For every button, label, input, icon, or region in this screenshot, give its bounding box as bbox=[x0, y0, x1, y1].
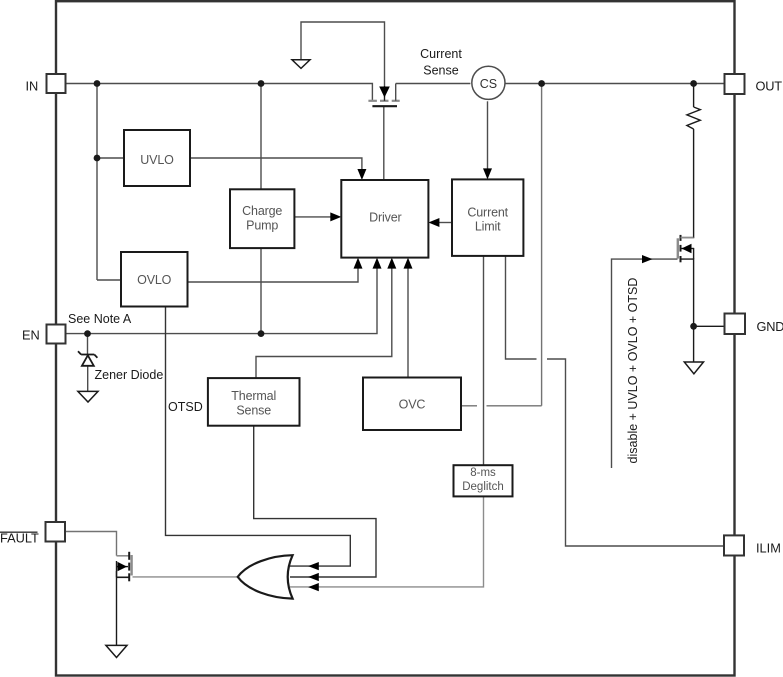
svg-text:Charge: Charge bbox=[242, 204, 282, 218]
wire Thermal Sense to Driver bbox=[256, 268, 392, 378]
wire Charge Pump to Driver bbox=[295, 216, 333, 218]
wire OUT net bbox=[396, 83, 471, 85]
arrow Charge Pump into Driver bbox=[330, 212, 341, 221]
wire OVC to Driver bbox=[407, 268, 409, 378]
wire OVLO to OR gate bbox=[166, 306, 351, 566]
svg-text:UVLO: UVLO bbox=[140, 153, 174, 167]
svg-text:GND: GND bbox=[757, 319, 783, 334]
right FET Q2 bbox=[678, 235, 694, 262]
svg-text:Deglitch: Deglitch bbox=[462, 481, 504, 493]
svg-text:OUT: OUT bbox=[756, 79, 783, 94]
svg-text:CS: CS bbox=[480, 77, 497, 91]
wire disable signal to right FET gate bbox=[612, 259, 678, 468]
svg-text:8-ms: 8-ms bbox=[470, 467, 496, 479]
wire Current Limit to 8-ms Deglitch bbox=[483, 256, 485, 465]
pass FET M1 bbox=[368, 84, 399, 107]
arrow EN into Driver bbox=[373, 258, 382, 269]
svg-text:OTSD: OTSD bbox=[168, 400, 203, 414]
wire OVLO to Driver bbox=[188, 268, 358, 282]
svg-text:Zener Diode: Zener Diode bbox=[95, 368, 164, 382]
wire OVC to OUT sense bbox=[461, 84, 542, 406]
wire IN to Charge Pump bbox=[260, 84, 262, 190]
pin FAULT bbox=[0, 522, 65, 546]
pin OUT bbox=[725, 74, 783, 94]
zener diode bbox=[78, 351, 97, 366]
wire pass FET gate to Driver bbox=[383, 106, 385, 180]
svg-text:Sense: Sense bbox=[423, 64, 458, 78]
wire resistor to right FET drain bbox=[682, 129, 694, 238]
arrow Current Limit into Driver bbox=[428, 218, 439, 227]
arrow Thermal Sense into Driver bbox=[387, 258, 396, 269]
wire top ground loop to pass FET body bbox=[301, 22, 385, 86]
wire CS to Current Limit bbox=[487, 101, 489, 172]
block Driver bbox=[341, 180, 428, 258]
svg-text:Driver: Driver bbox=[369, 211, 401, 225]
block Thermal Sense bbox=[208, 378, 300, 426]
wire UVLO to Driver bbox=[190, 158, 362, 173]
arrow OR gate input top bbox=[308, 562, 319, 570]
resistor RILIM bbox=[687, 107, 700, 129]
svg-text:Current: Current bbox=[467, 205, 508, 219]
arrow OR gate input middle bbox=[308, 573, 319, 581]
svg-text:ILIM: ILIM bbox=[756, 540, 781, 555]
svg-text:Thermal: Thermal bbox=[231, 389, 276, 403]
wire right FET source to GND bbox=[682, 259, 694, 362]
arrow OVLO into Driver bbox=[354, 258, 363, 269]
arrow disable into right FET gate bbox=[642, 255, 653, 263]
current sense circle CS bbox=[472, 66, 505, 99]
wire OUT to resistor bbox=[693, 84, 695, 108]
arrow CS into Current Limit bbox=[483, 168, 492, 179]
pin EN bbox=[22, 325, 66, 344]
wire 8-ms Deglitch to OR gate bbox=[290, 497, 484, 587]
pin IN bbox=[26, 74, 66, 94]
svg-text:OVLO: OVLO bbox=[137, 273, 172, 287]
wire zener to ground bbox=[87, 366, 89, 391]
wire Current Limit to Driver bbox=[438, 222, 452, 224]
svg-text:IN: IN bbox=[26, 79, 39, 94]
wire IN to UVLO/OVLO bbox=[96, 84, 98, 281]
svg-text:Limit: Limit bbox=[475, 219, 501, 233]
junction IN/charge-pump branch bbox=[258, 80, 265, 87]
wire GND pin bbox=[694, 325, 725, 327]
junction IN/UVLO branch bbox=[94, 80, 101, 87]
svg-text:OVC: OVC bbox=[399, 397, 426, 411]
ground right FET bbox=[684, 362, 703, 374]
wire Thermal Sense to OR gate bbox=[254, 426, 376, 577]
wire Current Limit to ILIM bbox=[506, 256, 725, 546]
wire EN to zener bbox=[87, 334, 89, 355]
junction OUT/OVC sense branch bbox=[538, 80, 545, 87]
block UVLO bbox=[124, 130, 190, 186]
block 8-ms Deglitch bbox=[454, 465, 513, 496]
svg-text:Pump: Pump bbox=[246, 219, 278, 233]
wire Charge Pump to EN net bbox=[260, 248, 262, 334]
ground zener bbox=[78, 391, 98, 402]
block OVLO bbox=[121, 252, 188, 307]
OR gate U1 bbox=[238, 555, 293, 598]
arrow UVLO into Driver bbox=[357, 169, 366, 180]
svg-text:EN: EN bbox=[22, 328, 40, 343]
svg-text:disable + UVLO + OVLO + OTSD: disable + UVLO + OVLO + OTSD bbox=[626, 278, 640, 464]
block Charge Pump bbox=[230, 189, 294, 248]
junction EN/charge-pump branch bbox=[258, 330, 265, 337]
pin GND bbox=[725, 314, 783, 335]
fault FET Q1 bbox=[117, 552, 132, 582]
junction OUT/resistor branch bbox=[690, 80, 697, 87]
svg-text:Sense: Sense bbox=[236, 403, 271, 417]
arrow OVC into Driver bbox=[404, 258, 413, 269]
arrow OR gate input bottom bbox=[308, 583, 319, 591]
wire fault FET source to ground bbox=[116, 571, 118, 645]
wire OR gate output to fault FET gate bbox=[133, 576, 238, 578]
svg-text:Current: Current bbox=[420, 47, 462, 61]
junction GND node bbox=[690, 323, 697, 330]
block OVC bbox=[363, 378, 461, 431]
block Current Limit bbox=[452, 179, 523, 256]
junction UVLO input bbox=[94, 155, 101, 162]
wire IN bus bbox=[66, 84, 372, 101]
ground top bbox=[292, 60, 310, 69]
wire EN net bbox=[66, 268, 377, 334]
svg-text:See Note A: See Note A bbox=[68, 312, 132, 326]
pin ILIM bbox=[724, 535, 781, 555]
junction EN/zener branch bbox=[84, 330, 91, 337]
arrowheads bbox=[308, 168, 652, 591]
wire FAULT pin to fault FET drain bbox=[66, 532, 117, 556]
ground fault FET bbox=[106, 645, 127, 657]
